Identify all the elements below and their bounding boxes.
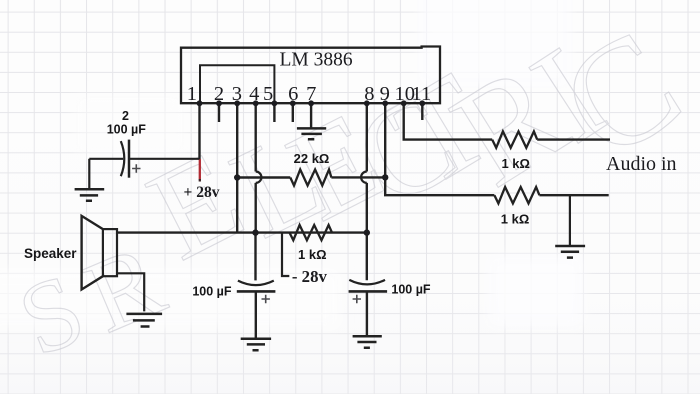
wire pin7 to ground: [310, 103, 312, 128]
capacitor C4 100uF right bottom: curved plate: [349, 280, 385, 285]
wire C4 down to ground: [366, 291, 368, 335]
svg-text:Audio in: Audio in: [606, 153, 677, 175]
node pin5: [272, 100, 278, 106]
svg-text:22 kΩ: 22 kΩ: [294, 151, 330, 166]
wire pin11 stub: [421, 103, 423, 120]
ground under C3: [241, 339, 271, 350]
capacitor C3 plus sign: [262, 295, 270, 303]
wire R4 to audio in: [537, 138, 610, 140]
node pin8: [364, 100, 370, 106]
capacitor C4 straight plate: [349, 290, 388, 293]
svg-text:1 kΩ: 1 kΩ: [501, 211, 530, 226]
svg-text:1 kΩ: 1 kΩ: [298, 247, 327, 262]
svg-text:100 µF: 100 µF: [107, 123, 147, 137]
capacitor C2 curved plate: [121, 141, 125, 176]
wire C2 left down to ground: [88, 159, 90, 189]
wire R5 to audio in: [539, 194, 608, 196]
node lower line left junction: [252, 229, 258, 235]
svg-text:Speaker: Speaker: [24, 246, 77, 261]
speaker SP1 cone: [82, 216, 103, 290]
node pin7: [308, 100, 314, 106]
svg-text:+ 28v: + 28v: [184, 184, 220, 201]
op-amp IC U1 LM3886 outer box: [181, 47, 440, 104]
svg-text:LM 3886: LM 3886: [279, 49, 352, 70]
wire -28v stub: [282, 233, 289, 276]
wire down to ground right: [569, 195, 571, 245]
node pin10: [401, 100, 407, 106]
wire C3 down to ground: [255, 291, 257, 338]
IC notch inner box: [200, 65, 274, 103]
resistor R5 1k bottom right zigzag: [494, 187, 539, 203]
svg-text:2: 2: [122, 109, 129, 123]
node pin3: [234, 100, 240, 106]
wire 22k to pin9 node: [331, 176, 385, 178]
ground under C2: [75, 189, 105, 200]
ground under speaker: [126, 314, 162, 327]
wire hop arc pin8: [361, 172, 367, 183]
capacitor C3 100uF left bottom: top wire from node: [254, 233, 256, 281]
capacitor C4 plus sign: [353, 295, 361, 303]
node pin9: [382, 100, 388, 106]
node pin1: [197, 100, 203, 106]
svg-text:100 µF: 100 µF: [192, 285, 232, 299]
svg-text:1 kΩ: 1 kΩ: [501, 156, 530, 171]
resistor R3 1k zigzag (on lower line): [290, 225, 333, 240]
resistor R2 22k zigzag: [290, 170, 331, 186]
wire pin3 vertical: [236, 103, 238, 232]
wire hop arc pin4: [256, 172, 262, 183]
node pin6: [290, 100, 296, 106]
wire pin9 vertical then right to resistor: [385, 103, 494, 195]
node pin2: [216, 100, 222, 106]
ground right input: [555, 246, 585, 258]
wire speaker bottom to ground: [117, 273, 144, 311]
svg-text:- 28v: - 28v: [292, 267, 328, 286]
wire pin6 stub: [292, 103, 294, 122]
capacitor C3 curved plate: [238, 281, 274, 286]
wire pin5 stub: [273, 103, 275, 122]
capacitor C3 straight plate: [237, 290, 276, 293]
node feedback right junction: [382, 174, 388, 180]
svg-text:5: 5: [263, 83, 273, 105]
eraser patches (background texture): [0, 0, 583, 328]
ground pin7: [297, 128, 326, 139]
wire 22k feedback line: [237, 176, 290, 178]
node feedback left junction: [234, 174, 240, 180]
capacitor C2 plus sign: [132, 164, 140, 172]
speaker SP1 box: [103, 229, 117, 276]
svg-text:100 µF: 100 µF: [391, 283, 431, 297]
wire pin10 down then right: [404, 103, 493, 139]
node pin4: [253, 100, 259, 106]
wire pin1 vertical: [198, 103, 200, 159]
node lower line right junction: [364, 229, 370, 235]
wire pin4 vertical (with hop gap): [254, 103, 256, 232]
svg-text:1: 1: [187, 83, 197, 105]
capacitor C2 straight plate: [128, 140, 131, 178]
wire red +28v segment: [199, 159, 201, 180]
resistor R4 1k top right zigzag: [492, 131, 537, 147]
capacitor C2 100uF horizontal: left wire: [89, 158, 123, 160]
wire pin8 vertical down to capacitor (with hop gap): [366, 103, 368, 280]
wire speaker output horizontal line: [117, 231, 367, 233]
ground under C4: [353, 336, 382, 348]
wire pin2 stub: [218, 103, 220, 122]
node pin11: [419, 100, 425, 106]
wire C2 right to pin1 node: [129, 158, 200, 160]
